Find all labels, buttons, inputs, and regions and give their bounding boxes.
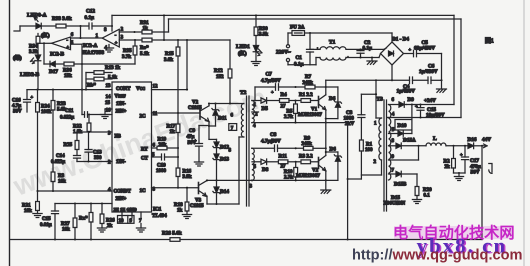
wire V2 emitter: [325, 171, 327, 181]
svg-text:V2: V2: [192, 101, 199, 106]
svg-text:240k: 240k: [302, 142, 313, 147]
diode D17: [50, 61, 55, 67]
diode D7: [326, 151, 338, 153]
svg-text:44V: 44V: [482, 137, 491, 143]
wire Vref rail: [27, 89, 112, 91]
wire: [168, 19, 170, 32]
svg-text:Ro*: Ro*: [140, 46, 149, 51]
svg-text:R7: R7: [305, 75, 312, 80]
capacitor C3: [360, 94, 362, 115]
svg-text:27: 27: [281, 165, 287, 170]
svg-text:240k: 240k: [303, 81, 314, 86]
svg-text:R34: R34: [29, 45, 38, 50]
wire: [66, 25, 88, 27]
wire: [266, 161, 278, 163]
wire: [186, 40, 188, 90]
wire: [446, 145, 468, 147]
ground C5: [441, 80, 443, 88]
left page border: [9, 0, 11, 266]
resistor R24: [37, 90, 39, 103]
IC U1 TL494 body: [112, 82, 152, 212]
svg-text:R26: R26: [106, 219, 115, 224]
wire: [216, 161, 218, 181]
svg-text:2.7k: 2.7k: [284, 176, 293, 181]
svg-text:R10: R10: [284, 170, 293, 175]
transformer T3 primary: [375, 80, 377, 118]
svg-text:LED2-B: LED2-B: [20, 72, 40, 78]
wire T2 pin2 tap: [252, 111, 259, 113]
svg-text:D1 - D4: D1 - D4: [392, 37, 409, 43]
capacitor C15b: [54, 204, 56, 212]
wire FB row: [77, 131, 112, 133]
resistor R10: [295, 162, 297, 168]
watermark underlay band: [394, 226, 514, 239]
svg-text:R12: R12: [214, 69, 223, 74]
wire: [411, 105, 413, 120]
svg-text:RT: RT: [141, 148, 148, 153]
capacitor C16: [26, 90, 28, 100]
svg-text:R23: R23: [57, 102, 66, 107]
resistor R33: [56, 24, 66, 28]
svg-text:4.7μ/50V: 4.7μ/50V: [261, 78, 281, 84]
wire IC2-B pin5 input: [71, 43, 83, 45]
svg-text:50V: 50V: [188, 141, 197, 146]
resistor R31: [142, 30, 152, 34]
capacitor C9: [199, 125, 209, 127]
svg-text:TL494: TL494: [152, 213, 167, 219]
svg-text:100: 100: [365, 148, 373, 153]
svg-text:L: L: [433, 136, 437, 142]
wire V3 emitter row: [206, 196, 208, 204]
wire: [348, 178, 362, 180]
svg-text:R19: R19: [158, 138, 167, 143]
svg-text:2E 1E GND: 2E 1E GND: [114, 207, 138, 212]
svg-text:D8: D8: [262, 167, 269, 173]
wire pin8 row: [152, 187, 199, 189]
wire: [431, 79, 442, 81]
transformer T2 primary: [216, 103, 244, 105]
ground R20: [416, 196, 418, 200]
svg-text:152: 152: [216, 75, 224, 80]
svg-text:+: +: [31, 95, 34, 100]
svg-text:LED0-A: LED0-A: [27, 13, 47, 19]
wire: [287, 62, 289, 65]
wire: [163, 15, 165, 40]
wire pin7 row: [389, 173, 397, 175]
resistor R15: [177, 40, 179, 47]
svg-text:R28 5.6k: R28 5.6k: [162, 231, 182, 237]
svg-text:C1815: C1815: [190, 204, 204, 209]
svg-text:5.1k: 5.1k: [140, 52, 149, 57]
wire pin5 row: [389, 133, 399, 135]
svg-text:MJE13007: MJE13007: [298, 112, 322, 118]
diode D9: [399, 102, 404, 108]
svg-text:11: 11: [153, 112, 158, 117]
wire IC2-B output: [38, 42, 52, 44]
wire output: [474, 145, 487, 147]
svg-text:(红): (红): [238, 49, 247, 57]
svg-text:15k: 15k: [64, 74, 72, 79]
resistor R34: [37, 34, 39, 37]
diode D16: [468, 143, 474, 149]
LED LED2-B: [35, 55, 41, 61]
wire: [165, 156, 179, 158]
wire pin6 row T2: [209, 103, 216, 105]
svg-text:R13 1k: R13 1k: [105, 66, 120, 71]
wire: [44, 63, 50, 65]
wire pin2 row: [77, 161, 112, 163]
transformer T2 core: [246, 96, 248, 206]
ground IC1: [140, 224, 142, 229]
svg-text:+: +: [115, 40, 118, 45]
svg-text:1k: 1k: [177, 209, 183, 214]
wire: [361, 93, 376, 95]
svg-text:R1: R1: [366, 143, 373, 148]
svg-text:R22: R22: [73, 125, 82, 130]
svg-text:47μ: 47μ: [187, 135, 195, 140]
resistor R20: [416, 174, 418, 187]
svg-text:T1: T1: [329, 40, 336, 46]
resistor R4: [280, 99, 290, 103]
resistor R13: [86, 72, 94, 74]
capacitor C1: [309, 33, 311, 49]
op-amp IC2-B: [52, 37, 71, 50]
resistor R14 5.1k: [86, 78, 94, 80]
wire: [403, 133, 412, 135]
diode D12: [209, 138, 217, 140]
wire IC2-A pin3 row: [119, 39, 142, 41]
svg-text:R21: R21: [22, 204, 31, 209]
svg-text:R2: R2: [444, 160, 451, 165]
svg-text:3.0k: 3.0k: [164, 58, 173, 63]
svg-text:0.1μ: 0.1μ: [85, 15, 94, 21]
svg-text:+: +: [409, 47, 412, 52]
wire: [20, 25, 35, 27]
wire top bus 1: [112, 14, 454, 16]
svg-text:图1: 图1: [485, 37, 494, 45]
wire: [255, 36, 257, 46]
svg-text:4.7μ: 4.7μ: [12, 104, 21, 109]
svg-text:C8: C8: [270, 132, 277, 138]
wire: [337, 161, 339, 180]
diode D5: [261, 98, 267, 104]
resistor R11: [278, 160, 288, 164]
diode D11: [215, 104, 217, 110]
wire: [287, 33, 289, 45]
inductor L: [426, 143, 446, 146]
resistor R17: [177, 113, 179, 124]
capacitor C10: [162, 154, 165, 160]
svg-text:IC2-A: IC2-A: [83, 43, 97, 49]
transformer T3 core: [383, 100, 385, 211]
svg-text:R11: R11: [279, 154, 288, 159]
wire: [337, 107, 339, 118]
svg-text:0.022μ: 0.022μ: [60, 115, 74, 120]
wire: [88, 131, 90, 134]
ground V2: [325, 180, 327, 189]
resistor R19: [157, 146, 167, 150]
wire: [80, 26, 82, 38]
wire pin12 row: [152, 89, 188, 91]
svg-text:10k: 10k: [62, 228, 70, 233]
wire pin4 row: [38, 190, 113, 192]
wire: [311, 100, 319, 102]
svg-text:C1: C1: [296, 55, 303, 61]
diode D13: [216, 149, 218, 154]
svg-text:1IN-: 1IN-: [116, 160, 126, 165]
svg-text:R4: R4: [281, 93, 288, 98]
svg-text:+: +: [271, 90, 274, 95]
diode D6: [326, 86, 338, 88]
resistor R18: [186, 188, 188, 202]
fuse FU 2A: [292, 31, 305, 36]
svg-text:T3: T3: [377, 97, 384, 103]
svg-text:C13: C13: [93, 151, 102, 156]
wire bus2 right drop: [460, 19, 462, 118]
svg-text:2kV: 2kV: [345, 121, 354, 127]
svg-text:FU 2A: FU 2A: [290, 25, 305, 31]
resistor R28: [170, 238, 180, 242]
svg-text:+24V: +24V: [424, 98, 436, 104]
wire: [266, 100, 279, 102]
svg-text:R30: R30: [259, 27, 268, 32]
svg-text:R18: R18: [174, 203, 183, 208]
svg-text:2C: 2C: [140, 115, 147, 120]
wire: [387, 117, 389, 119]
wire: [37, 43, 39, 55]
svg-text:C11: C11: [65, 109, 74, 114]
wire: [401, 173, 417, 175]
svg-text:V3: V3: [195, 199, 202, 204]
svg-text:C16: C16: [12, 99, 21, 104]
wire: [311, 161, 319, 163]
resistor R26: [101, 204, 103, 215]
svg-text:D12: D12: [220, 145, 229, 151]
diode D15A: [396, 143, 401, 149]
wire: [254, 87, 256, 101]
svg-text:R25: R25: [64, 143, 73, 148]
wire V1 emitter: [325, 110, 327, 123]
wire V2 collector: [325, 123, 327, 156]
resistor R5: [295, 101, 297, 105]
resistor R36: [64, 62, 74, 66]
svg-text:D14: D14: [220, 189, 229, 195]
resistor R35: [134, 40, 136, 46]
svg-text:IC1: IC1: [153, 207, 162, 213]
wire V3 collector: [206, 179, 208, 181]
svg-text:D6: D6: [330, 147, 337, 153]
svg-text:Rb*: Rb*: [87, 84, 96, 89]
svg-text:D9: D9: [408, 97, 415, 103]
svg-text:R31: R31: [140, 21, 149, 26]
wire pin9 row: [389, 159, 419, 161]
svg-text:1k: 1k: [143, 27, 149, 32]
right page edge scan line: [523, 0, 525, 266]
svg-text:R3: R3: [58, 174, 65, 179]
transformer T3 secondary: [389, 105, 391, 181]
svg-text:2IN+: 2IN+: [116, 110, 127, 115]
resistor R7: [305, 85, 315, 89]
wire: [208, 104, 210, 106]
wire: [81, 44, 83, 114]
svg-text:C15: C15: [42, 217, 51, 222]
capacitor C14: [76, 150, 78, 156]
wire: [92, 25, 112, 27]
svg-text:2.7k: 2.7k: [284, 115, 293, 120]
resistor R21: [37, 191, 39, 202]
svg-text:14: 14: [106, 95, 112, 100]
diode D10: [398, 131, 403, 137]
svg-text:C12: C12: [86, 9, 95, 15]
svg-text:1000: 1000: [156, 169, 167, 174]
diode D15B: [396, 171, 401, 177]
svg-text:10k: 10k: [58, 180, 66, 185]
wire midpoint row: [252, 122, 348, 124]
wire IC1 bottom pins: [121, 212, 123, 218]
wire bridge to C5: [404, 53, 414, 55]
resistor R1a 2.2: [301, 99, 311, 103]
wire: [43, 43, 45, 64]
svg-text:R27: R27: [61, 222, 70, 227]
capacitor C13: [88, 132, 90, 150]
resistor R3b 2.2: [301, 160, 311, 164]
ground pin16: [105, 108, 112, 110]
wire bottom row: [207, 203, 239, 205]
svg-text:http://www.qg-gudq.com: http://www.qg-gudq.com: [352, 248, 523, 264]
wire: [360, 151, 362, 179]
wire bottom rail right: [180, 239, 482, 241]
ground R21: [37, 211, 39, 214]
svg-text:5.1k: 5.1k: [108, 76, 117, 81]
capacitor C17: [464, 146, 466, 157]
resistor R3 10k: [51, 172, 55, 182]
wire: [85, 73, 87, 90]
svg-text:13: 13: [106, 84, 112, 89]
capacitor C12: [89, 23, 92, 29]
resistor R2: [453, 146, 455, 159]
wire pin11 row: [152, 112, 201, 114]
wire: [52, 110, 54, 172]
wire +24V row: [407, 104, 455, 106]
wire C7 row: [255, 86, 276, 88]
wire: [361, 174, 381, 176]
svg-text:CONDT: CONDT: [114, 190, 132, 195]
svg-text:C7: C7: [266, 72, 273, 78]
transformer T2 sec upper: [252, 101, 255, 123]
capacitor C4: [410, 77, 413, 84]
transistor V3 C1815: [198, 183, 200, 194]
svg-text:R16: R16: [183, 170, 192, 175]
resistor R16: [176, 168, 180, 177]
svg-text:1μ/630V: 1μ/630V: [397, 89, 416, 95]
capacitor C7: [276, 84, 279, 91]
wire: [177, 133, 179, 169]
wire: [391, 33, 393, 42]
svg-text:HA17358: HA17358: [83, 50, 105, 56]
svg-text:1k: 1k: [170, 130, 176, 135]
svg-text:T2: T2: [240, 90, 247, 96]
transformer T2 sec lower: [252, 148, 254, 180]
svg-text:50V: 50V: [13, 110, 22, 115]
label T2 pin7: [229, 124, 237, 131]
wire: [152, 39, 230, 41]
wire: [347, 123, 349, 240]
capacitor C6: [428, 77, 431, 84]
label IC1 pin 10 9 box: [118, 216, 135, 224]
svg-text:4.7μ/50V: 4.7μ/50V: [261, 138, 281, 144]
wire: [177, 177, 179, 188]
svg-text:R3 2.2: R3 2.2: [299, 154, 313, 159]
svg-text:1μ/630V: 1μ/630V: [419, 69, 438, 75]
LED LED1: [253, 46, 259, 52]
svg-text:LED1: LED1: [236, 44, 250, 50]
svg-text:0.1μ: 0.1μ: [363, 46, 372, 52]
wire RT row: [152, 147, 158, 149]
wire bus1 right drop: [453, 15, 455, 104]
wire: [208, 122, 210, 140]
resistor R22: [88, 115, 90, 124]
resistor Rx*: [90, 204, 92, 213]
svg-text:1C: 1C: [140, 189, 147, 194]
svg-text:3.9k: 3.9k: [259, 33, 268, 38]
wire IC2-A pin2 row: [119, 31, 142, 33]
svg-text:10k: 10k: [24, 209, 32, 214]
svg-text:330: 330: [94, 156, 102, 161]
svg-text:10: 10: [119, 219, 125, 224]
connector jack: [489, 164, 492, 174]
wire: [289, 100, 301, 102]
svg-text:2IN+: 2IN+: [116, 197, 127, 202]
wire: [37, 112, 39, 191]
wire: [305, 32, 393, 34]
svg-text:C1815: C1815: [188, 106, 202, 111]
ground R18: [186, 211, 188, 215]
svg-text:D15A: D15A: [403, 138, 416, 144]
svg-text:D11: D11: [218, 116, 227, 122]
svg-text:+: +: [460, 152, 463, 157]
svg-text:D17: D17: [49, 69, 58, 75]
resistor R30: [255, 15, 257, 27]
svg-text:27: 27: [281, 105, 287, 110]
ground LED1: [255, 52, 257, 62]
svg-text:FB: FB: [115, 135, 122, 140]
svg-text:R36: R36: [63, 69, 72, 74]
svg-text:C9: C9: [189, 129, 196, 134]
transistor V1 MJE13007: [318, 97, 320, 108]
svg-text:+: +: [67, 45, 70, 50]
wire: [361, 48, 384, 50]
wire C8 row: [252, 147, 275, 149]
box D10: [395, 120, 412, 131]
wire bottom rail left: [10, 239, 170, 241]
wire IC2-A pin8: [111, 15, 113, 31]
svg-text:R1 2.2: R1 2.2: [299, 93, 313, 98]
ground AC: [371, 58, 373, 61]
svg-text:3.3k: 3.3k: [29, 50, 38, 55]
wire primary row: [326, 79, 410, 81]
resistor R12: [229, 40, 231, 69]
svg-text:D6: D6: [329, 96, 336, 102]
svg-text:0.022μ: 0.022μ: [51, 160, 65, 165]
svg-text:3.7k: 3.7k: [122, 55, 131, 60]
transistor V2 C1815: [199, 108, 201, 119]
wire: [389, 104, 400, 106]
LED LED0-A: [36, 23, 41, 29]
svg-text:220V~: 220V~: [276, 50, 291, 56]
wire T2 primary bottom drop: [239, 136, 244, 138]
svg-text:(绿): (绿): [13, 54, 22, 62]
wire: [37, 62, 39, 90]
